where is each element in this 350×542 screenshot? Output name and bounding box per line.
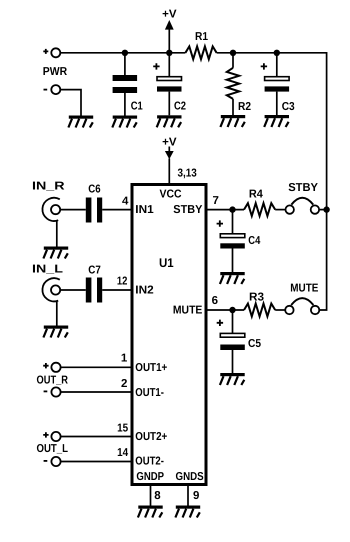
svg-text:OUT1+: OUT1+: [135, 362, 167, 374]
svg-text:12: 12: [117, 275, 128, 287]
svg-text:2: 2: [121, 378, 127, 390]
svg-text:IN_R: IN_R: [32, 181, 65, 193]
svg-text:7: 7: [213, 195, 219, 207]
svg-text:OUT2+: OUT2+: [135, 431, 167, 443]
svg-text:C2: C2: [174, 101, 186, 113]
svg-text:MUTE: MUTE: [290, 283, 318, 295]
svg-text:OUT_R: OUT_R: [37, 375, 69, 387]
svg-text:R3: R3: [249, 292, 264, 304]
svg-text:OUT_L: OUT_L: [37, 443, 69, 455]
svg-text:C6: C6: [88, 184, 100, 196]
svg-text:IN2: IN2: [135, 285, 153, 297]
svg-text:MUTE: MUTE: [173, 305, 203, 317]
svg-text:C7: C7: [88, 265, 101, 277]
svg-text:R2: R2: [238, 101, 251, 113]
svg-text:1: 1: [121, 353, 128, 365]
svg-text:6: 6: [212, 295, 218, 307]
svg-text:+V: +V: [162, 9, 177, 21]
svg-text:OUT2-: OUT2-: [135, 455, 164, 467]
svg-text:R4: R4: [249, 188, 264, 200]
svg-text:GNDS: GNDS: [176, 471, 204, 483]
svg-text:4: 4: [122, 195, 129, 207]
svg-text:9: 9: [193, 490, 199, 502]
svg-text:STBY: STBY: [173, 204, 202, 216]
svg-text:15: 15: [117, 423, 129, 435]
svg-text:C5: C5: [248, 338, 262, 350]
svg-text:3,13: 3,13: [178, 167, 197, 179]
svg-text:U1: U1: [159, 256, 174, 270]
svg-text:R1: R1: [195, 31, 209, 43]
svg-text:IN1: IN1: [135, 204, 154, 216]
svg-text:+V: +V: [162, 136, 177, 148]
svg-text:PWR: PWR: [43, 66, 68, 78]
svg-text:C3: C3: [282, 101, 295, 113]
svg-text:C1: C1: [131, 101, 143, 113]
svg-text:8: 8: [154, 490, 161, 502]
svg-text:VCC: VCC: [160, 189, 182, 201]
svg-text:GNDP: GNDP: [136, 471, 164, 483]
svg-text:STBY: STBY: [288, 182, 318, 194]
svg-text:OUT1-: OUT1-: [135, 387, 164, 399]
svg-text:14: 14: [117, 447, 129, 459]
svg-text:C4: C4: [248, 235, 260, 247]
svg-text:IN_L: IN_L: [32, 264, 63, 276]
